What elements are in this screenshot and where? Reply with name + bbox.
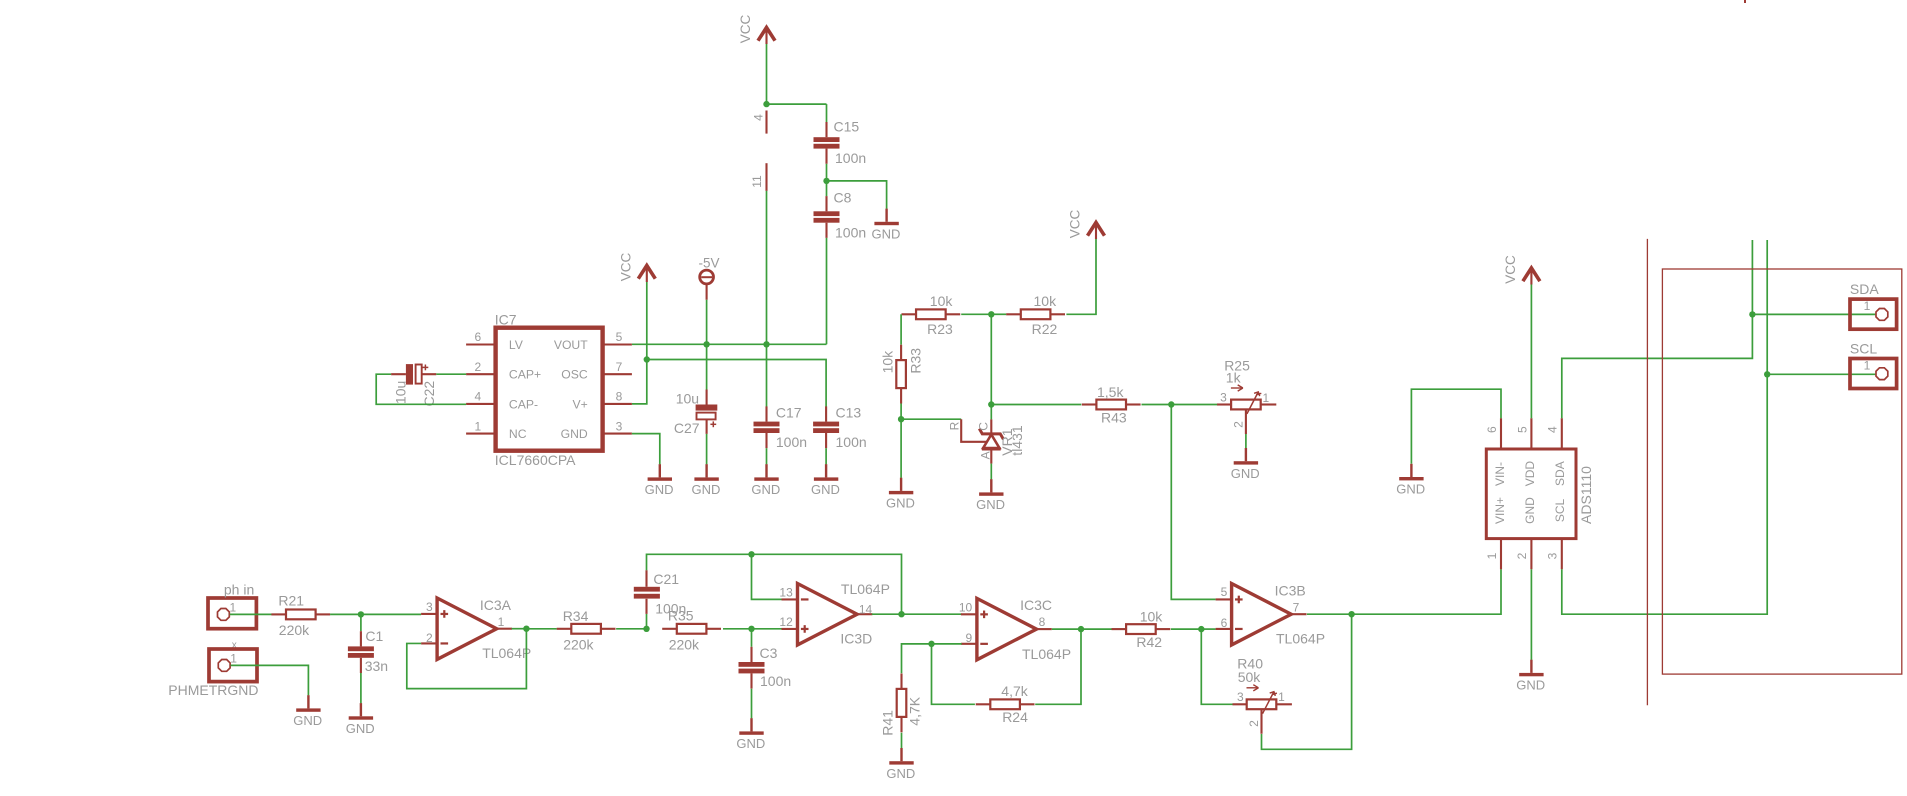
wire C22 to CAP+ — [436, 373, 466, 375]
wire — [360, 614, 362, 631]
svg-text:ph in: ph in — [224, 581, 254, 597]
junction — [358, 611, 364, 617]
svg-text:C17: C17 — [776, 404, 802, 420]
svg-text:-5V: -5V — [698, 255, 719, 270]
wire SCL to connector — [1767, 373, 1875, 375]
wire R24 to IC3C output — [1035, 629, 1081, 704]
wire — [723, 628, 752, 630]
svg-text:C21: C21 — [653, 571, 679, 587]
junction — [1749, 311, 1755, 317]
svg-text:IC3D: IC3D — [840, 630, 872, 646]
svg-text:A: A — [979, 451, 993, 459]
wire — [766, 344, 768, 406]
svg-text:SCL: SCL — [1850, 341, 1877, 357]
svg-text:R24: R24 — [1002, 709, 1028, 725]
frame box — [1662, 269, 1901, 674]
wire R24 feedback loop — [932, 644, 975, 704]
junction — [763, 101, 769, 107]
svg-text:IC3C: IC3C — [1020, 597, 1052, 613]
svg-text:10k: 10k — [1034, 293, 1058, 309]
svg-text:SDA: SDA — [1850, 281, 1879, 297]
svg-text:GND: GND — [736, 736, 765, 751]
wire — [512, 628, 527, 630]
svg-text:220k: 220k — [279, 622, 310, 638]
junction — [748, 626, 754, 632]
wire — [1307, 613, 1352, 615]
resistor R35 — [662, 628, 677, 630]
wire — [230, 613, 272, 615]
ADS1110 pin 3 SCL — [1561, 539, 1563, 570]
svg-text:50k: 50k — [1238, 669, 1262, 685]
svg-text:220k: 220k — [563, 636, 594, 652]
wire — [360, 673, 362, 703]
wire — [826, 104, 828, 122]
wire — [647, 554, 752, 570]
capacitor C22 (polarized) — [391, 373, 406, 375]
ground — [1410, 464, 1412, 477]
svg-text:10k: 10k — [880, 350, 896, 374]
junction — [928, 641, 934, 647]
svg-text:11: 11 — [750, 175, 764, 188]
svg-text:GND: GND — [886, 496, 915, 511]
wire — [1052, 628, 1081, 630]
svg-text:3: 3 — [426, 600, 433, 614]
ground — [705, 464, 707, 477]
svg-text:1k: 1k — [1226, 370, 1242, 386]
wire R22 to VCC — [1066, 239, 1096, 314]
svg-text:GND: GND — [1523, 497, 1537, 524]
svg-text:VCC: VCC — [618, 253, 633, 282]
svg-text:10: 10 — [959, 600, 973, 614]
ADS1110 pin 6 VIN- — [1500, 418, 1502, 449]
IC ADS1110 body — [1486, 449, 1576, 539]
IC7 pin 8 V+ — [603, 403, 632, 405]
svg-text:2: 2 — [1515, 552, 1529, 559]
resistor R22 — [1006, 313, 1021, 315]
op-amp IC3D — [798, 584, 858, 645]
svg-text:5: 5 — [616, 330, 623, 344]
capacitor C27 (polarized) — [706, 390, 708, 405]
wire — [706, 344, 708, 389]
junction — [643, 626, 649, 632]
svg-text:6: 6 — [1221, 616, 1228, 630]
svg-text:GND: GND — [1231, 466, 1260, 481]
svg-text:7: 7 — [1293, 600, 1300, 614]
svg-text:R23: R23 — [927, 321, 953, 337]
junction — [703, 341, 709, 347]
op-amp IC3C — [977, 598, 1037, 659]
op-amp IC3B — [1232, 584, 1292, 645]
ground — [765, 464, 767, 477]
wire — [1245, 434, 1247, 448]
resistor R34 — [557, 628, 572, 630]
wire — [990, 314, 992, 404]
svg-text:1: 1 — [475, 419, 482, 433]
junction — [1348, 611, 1354, 617]
svg-text:R42: R42 — [1136, 634, 1162, 650]
junction — [988, 311, 994, 317]
VR1 anode pin — [990, 451, 992, 464]
wire VCC to V+ pin 8 — [632, 360, 647, 404]
svg-text:VDD: VDD — [1523, 461, 1537, 487]
IC7 pin 3 GND — [603, 433, 632, 435]
svg-text:220k: 220k — [669, 636, 700, 652]
capacitor C21 — [645, 599, 647, 614]
svg-text:C13: C13 — [836, 404, 862, 420]
wire C21 top to IC3D output node — [752, 554, 902, 614]
wire C22 to CAP- — [376, 374, 466, 404]
wire — [826, 181, 828, 196]
wire -5V to VOUT net — [706, 300, 708, 345]
trimmer R25 — [1217, 403, 1231, 405]
svg-text:6: 6 — [1485, 426, 1499, 433]
svg-text:tl431: tl431 — [1009, 425, 1025, 456]
svg-text:100n: 100n — [760, 673, 791, 689]
wire — [751, 689, 753, 719]
svg-text:8: 8 — [1039, 615, 1046, 629]
ground — [1245, 448, 1247, 461]
wire IC3A feedback — [407, 629, 527, 689]
ground — [825, 464, 827, 477]
svg-text:CAP+: CAP+ — [509, 368, 541, 382]
svg-text:TL064P: TL064P — [1022, 646, 1071, 662]
resistor R33 — [900, 345, 902, 360]
svg-text:2: 2 — [426, 631, 433, 645]
trimmer R40 — [1233, 703, 1247, 705]
wire reference to IC3B + — [1171, 405, 1215, 600]
wire — [1142, 404, 1172, 406]
svg-text:R22: R22 — [1032, 321, 1058, 337]
junction — [898, 611, 904, 617]
svg-text:VCC: VCC — [1503, 255, 1518, 284]
svg-text:1: 1 — [1278, 690, 1285, 704]
VR1 cathode — [990, 419, 992, 434]
ground — [885, 209, 887, 222]
power VCC (IC7) — [646, 268, 648, 283]
wire — [330, 613, 361, 615]
resistor R41 — [900, 674, 902, 689]
svg-text:5: 5 — [1221, 585, 1228, 599]
connector PHMETRGND — [209, 649, 257, 682]
svg-text:ADS1110: ADS1110 — [1578, 466, 1594, 524]
wire -5V rail down — [766, 191, 768, 344]
ADS1110 pin 4 SDA — [1561, 418, 1563, 449]
power VCC top rail — [765, 30, 767, 45]
wire IC3C - input — [932, 643, 962, 645]
ADS1110 pin 1 VIN+ — [1500, 539, 1502, 570]
wire to IC3D pin 12 — [752, 628, 782, 630]
capacitor C17 — [765, 406, 767, 421]
junction — [988, 401, 994, 407]
frame line — [1646, 239, 1648, 705]
svg-text:IC7: IC7 — [495, 311, 517, 327]
wire VCC down — [646, 282, 648, 360]
ground — [659, 464, 661, 477]
wire to IC3B - — [1201, 628, 1215, 630]
supply symbol -5V — [700, 270, 714, 284]
svg-text:GND: GND — [871, 227, 900, 242]
svg-text:GND: GND — [751, 482, 780, 497]
wire — [751, 629, 753, 647]
junction — [644, 356, 650, 362]
ground — [900, 478, 902, 491]
resistor R42 — [1112, 628, 1127, 630]
wire IC3B out to ADS1110 VIN+ — [1352, 569, 1501, 614]
svg-text:C15: C15 — [834, 118, 860, 134]
svg-text:10k: 10k — [1140, 608, 1164, 624]
svg-text:C8: C8 — [834, 190, 852, 206]
svg-text:VCC: VCC — [1068, 210, 1083, 239]
junction — [1764, 371, 1770, 377]
svg-text:10u: 10u — [676, 390, 699, 406]
wire — [646, 614, 648, 629]
wire — [1171, 628, 1201, 630]
wire — [616, 628, 646, 630]
wire — [1081, 628, 1112, 630]
wire — [990, 464, 992, 480]
ADS1110 pin 5 VDD — [1530, 418, 1532, 449]
capacitor C15 — [825, 122, 827, 137]
svg-text:OSC: OSC — [561, 368, 588, 382]
wire to C15 — [767, 103, 827, 105]
junction — [898, 416, 904, 422]
wire R23 to R33 — [900, 314, 902, 344]
wire VCC to C13 — [647, 360, 826, 407]
svg-text:3: 3 — [616, 419, 623, 433]
svg-text:TL064P: TL064P — [841, 581, 890, 597]
svg-text:GND: GND — [691, 482, 720, 497]
VR1 triangle — [983, 435, 999, 449]
op-amp IC3A — [437, 598, 497, 659]
wire SDA net — [1562, 240, 1753, 418]
junction — [1078, 626, 1084, 632]
capacitor C1 — [360, 631, 362, 646]
wire C8 to VOUT net — [826, 238, 828, 344]
frame tick top — [1744, 0, 1746, 3]
junction — [763, 341, 769, 347]
IC7 pin 4 CAP- — [466, 403, 496, 405]
wire — [526, 628, 556, 630]
svg-text:4,7k: 4,7k — [1001, 683, 1028, 699]
svg-text:VIN+: VIN+ — [1493, 497, 1507, 524]
svg-text:3: 3 — [1546, 552, 1560, 559]
IC7 pin 1 NC — [466, 433, 496, 435]
svg-text:R: R — [948, 421, 962, 430]
svg-text:8: 8 — [616, 390, 623, 404]
svg-text:GND: GND — [886, 766, 915, 781]
svg-text:100n: 100n — [776, 434, 807, 450]
svg-text:GND: GND — [293, 713, 322, 728]
net VOUT wire — [632, 343, 827, 345]
wire SDA to connector — [1752, 313, 1875, 315]
svg-text:C22: C22 — [421, 381, 437, 407]
wire — [990, 405, 992, 420]
svg-text:2: 2 — [1232, 421, 1246, 428]
wire — [872, 613, 902, 615]
svg-text:100n: 100n — [836, 434, 867, 450]
resistor R24 — [976, 703, 991, 705]
connector SCL — [1850, 359, 1897, 389]
wire — [961, 313, 991, 315]
svg-text:R21: R21 — [278, 593, 304, 609]
IC7 pin 7 OSC — [603, 373, 632, 375]
wire to IC3C + — [902, 613, 962, 615]
svg-text:2: 2 — [1247, 720, 1261, 727]
IC7 pin 2 CAP+ — [466, 373, 496, 375]
wire ADS GND pin — [1530, 569, 1532, 660]
svg-text:9: 9 — [966, 631, 973, 645]
svg-text:1: 1 — [1864, 299, 1871, 313]
svg-text:V+: V+ — [572, 397, 587, 411]
resistor R21 — [271, 613, 286, 615]
svg-text:4,7K: 4,7K — [907, 696, 923, 725]
ground — [900, 748, 902, 761]
svg-text:4: 4 — [751, 114, 765, 121]
svg-text:R34: R34 — [563, 608, 589, 624]
svg-text:6: 6 — [475, 330, 482, 344]
svg-text:1,5k: 1,5k — [1097, 384, 1124, 400]
ground — [360, 703, 362, 716]
svg-text:3: 3 — [1237, 690, 1244, 704]
svg-text:IC3B: IC3B — [1275, 583, 1306, 599]
svg-text:12: 12 — [779, 615, 793, 629]
resistor R23 — [901, 313, 916, 315]
IC7 pin 6 LV — [466, 343, 496, 345]
wire — [1530, 285, 1532, 419]
svg-text:1: 1 — [498, 615, 505, 629]
svg-text:R35: R35 — [668, 608, 694, 624]
ground — [307, 695, 309, 708]
svg-text:GND: GND — [561, 427, 588, 441]
svg-text:7: 7 — [616, 360, 623, 374]
wire — [826, 164, 828, 181]
svg-text:1: 1 — [229, 601, 236, 615]
svg-text:PHMETRGND: PHMETRGND — [168, 682, 258, 698]
junction — [1168, 401, 1174, 407]
wire — [706, 434, 708, 465]
svg-text:R33: R33 — [907, 348, 923, 374]
shunt reference VR1 tl431 — [961, 419, 986, 442]
connector SDA — [1850, 299, 1897, 329]
junction — [523, 626, 529, 632]
wire to R41 — [902, 644, 932, 673]
power VCC (reference) — [1095, 225, 1097, 240]
wire R40 wiper to IC3B output — [1262, 614, 1352, 749]
svg-text:IC3A: IC3A — [480, 597, 512, 613]
wire — [231, 665, 309, 695]
svg-text:VCC: VCC — [738, 15, 753, 44]
resistor R43 — [1082, 403, 1097, 405]
svg-text:GND: GND — [346, 721, 375, 736]
wire to IC3A + — [361, 613, 421, 615]
pin 4 (V+) power pin of IC3 — [765, 111, 767, 134]
IC7 pin 5 VOUT — [603, 343, 632, 345]
wire — [991, 313, 1006, 315]
svg-text:VOUT: VOUT — [554, 338, 588, 352]
wire VIN- to ground — [1411, 389, 1501, 464]
wire to ground — [827, 181, 887, 209]
svg-text:33n: 33n — [365, 658, 388, 674]
capacitor C13 — [825, 406, 827, 421]
svg-text:5: 5 — [1515, 426, 1529, 433]
IC IC7 body — [496, 328, 603, 451]
wire — [825, 448, 827, 464]
svg-text:SDA: SDA — [1553, 461, 1567, 486]
wire to ground — [900, 419, 902, 478]
wire GND pin 3 of IC7 — [632, 434, 660, 465]
wire to TL431 ref — [901, 418, 961, 420]
connector ph in — [208, 598, 256, 629]
svg-text:R43: R43 — [1101, 410, 1127, 426]
svg-text:GND: GND — [976, 497, 1005, 512]
svg-text:GND: GND — [1396, 482, 1425, 497]
svg-text:TL064P: TL064P — [1276, 630, 1325, 646]
ground — [1530, 660, 1532, 673]
svg-text:TL064P: TL064P — [482, 645, 531, 661]
svg-text:10u: 10u — [392, 381, 408, 404]
wire to R40 — [1201, 629, 1233, 704]
wire to IC3D pin 13 — [752, 554, 782, 599]
svg-text:10k: 10k — [930, 293, 954, 309]
wire — [1036, 628, 1038, 630]
pin 11 (V-) power pin of IC3 — [765, 163, 767, 191]
svg-text:4: 4 — [475, 390, 482, 404]
wire — [991, 404, 1081, 406]
svg-text:GND: GND — [811, 482, 840, 497]
wire — [900, 404, 902, 420]
wire VCC down — [766, 44, 768, 104]
ADS1110 pin 2 GND — [1530, 539, 1532, 570]
svg-text:C3: C3 — [760, 645, 778, 661]
svg-text:14: 14 — [859, 603, 873, 617]
power VCC (ADC) — [1530, 270, 1532, 285]
svg-text:1: 1 — [1485, 552, 1499, 559]
svg-text:C1: C1 — [365, 628, 383, 644]
svg-text:NC: NC — [509, 427, 527, 441]
svg-text:100n: 100n — [835, 225, 866, 241]
ground — [750, 718, 752, 731]
svg-text:100n: 100n — [835, 150, 866, 166]
wire — [766, 448, 768, 464]
svg-text:GND: GND — [645, 482, 674, 497]
ground — [990, 479, 992, 492]
svg-text:C: C — [977, 422, 991, 431]
svg-text:1: 1 — [1864, 359, 1871, 373]
svg-text:R41: R41 — [880, 710, 896, 736]
svg-text:3: 3 — [1220, 391, 1227, 405]
svg-text:ICL7660CPA: ICL7660CPA — [495, 452, 576, 468]
wire — [1171, 404, 1217, 406]
svg-text:1: 1 — [1263, 391, 1270, 405]
svg-text:VIN-: VIN- — [1493, 462, 1507, 486]
svg-text:13: 13 — [779, 586, 793, 600]
capacitor C3 — [750, 647, 752, 662]
svg-text:CAP-: CAP- — [509, 397, 538, 411]
svg-text:4: 4 — [1546, 426, 1560, 433]
junction — [823, 178, 829, 184]
junction — [748, 551, 754, 557]
svg-text:LV: LV — [509, 338, 524, 352]
wire SCL net — [1562, 240, 1767, 614]
junction — [1198, 626, 1204, 632]
svg-text:SCL: SCL — [1553, 499, 1567, 523]
capacitor C8 — [825, 196, 827, 211]
svg-text:C27: C27 — [674, 420, 700, 436]
svg-text:1: 1 — [230, 652, 237, 666]
wire — [901, 733, 903, 749]
svg-text:2: 2 — [475, 360, 482, 374]
svg-text:GND: GND — [1516, 678, 1545, 693]
